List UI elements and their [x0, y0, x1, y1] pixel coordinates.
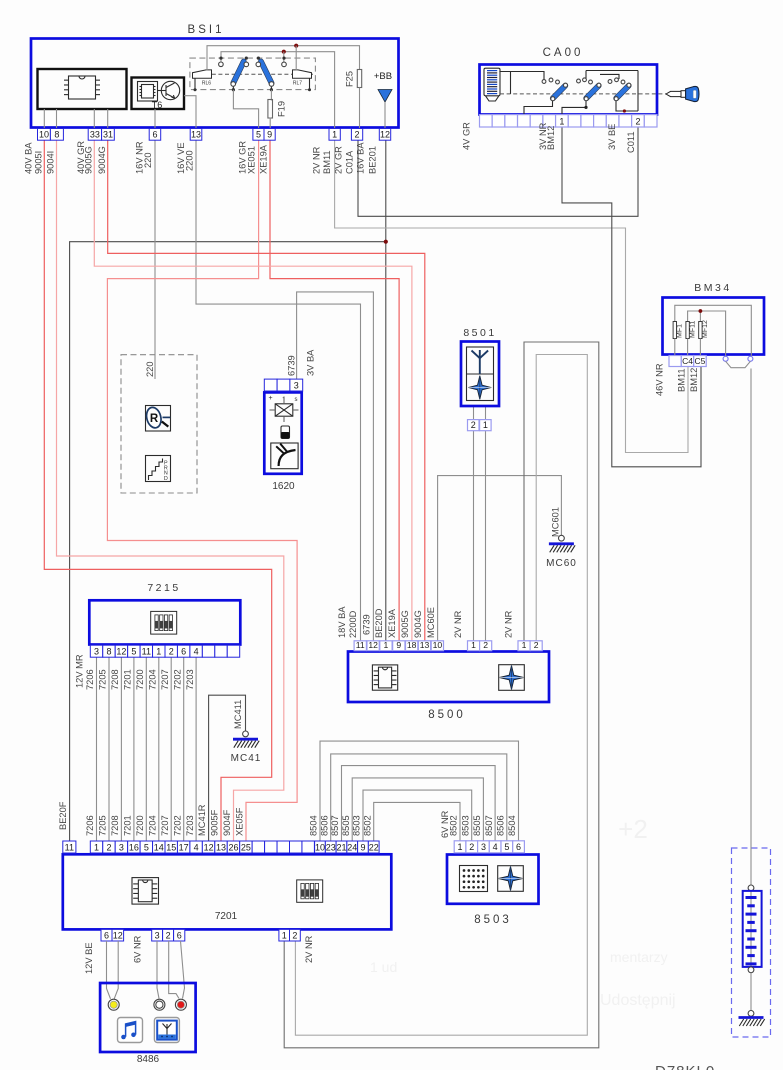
svg-text:BM11: BM11	[677, 368, 687, 392]
svg-text:F25: F25	[345, 71, 355, 87]
svg-text:3V BE: 3V BE	[607, 124, 617, 150]
stub wires IC box to pins 10 8 33 31	[43, 109, 45, 129]
svg-text:7203: 7203	[185, 815, 195, 836]
svg-text:4: 4	[194, 842, 199, 852]
CA00 ignition switch box	[480, 65, 658, 115]
svg-text:8506: 8506	[496, 815, 506, 836]
wire 9005G: BSI1 pin 33 to 8500 pin 18	[94, 140, 412, 641]
ground MC41	[243, 731, 249, 737]
svg-text:Udostępnij: Udostępnij	[600, 992, 676, 1009]
8486 head unit box	[100, 983, 196, 1052]
wire BE20F branch: horizontal to left then down to 7201 pin 11	[70, 242, 386, 841]
CA00 switch bar 1	[542, 80, 546, 84]
T6 transistor symbol	[161, 81, 179, 99]
svg-text:XE05F: XE05F	[235, 807, 245, 836]
svg-text:6: 6	[181, 647, 186, 657]
svg-text:7200: 7200	[135, 815, 145, 836]
svg-text:1620: 1620	[272, 481, 295, 492]
svg-text:5: 5	[144, 842, 149, 852]
8503 keypad symbol	[460, 866, 488, 892]
CA00 pin row	[480, 115, 493, 127]
7201 top pin row	[63, 841, 76, 853]
svg-text:+: +	[268, 395, 272, 402]
svg-text:BM34: BM34	[694, 282, 731, 294]
7201 bottom pins 6 12	[101, 929, 112, 941]
BM34 fuse box	[663, 298, 765, 355]
svg-text:9: 9	[360, 842, 365, 852]
BM34 internal rails	[675, 305, 752, 356]
wire 2V NR loop B: 8500 pin2(grp3) to 7201 bottom pin 2	[295, 355, 587, 1036]
svg-text:2V NR: 2V NR	[304, 935, 314, 963]
wire 8501 pin 1 to 8500 2V NR pin 2	[485, 431, 487, 641]
svg-text:2: 2	[169, 647, 174, 657]
svg-text:MC41R: MC41R	[197, 804, 207, 836]
svg-text:8502: 8502	[449, 815, 459, 836]
svg-text:mentarzy: mentarzy	[610, 949, 668, 965]
CA00 switch bar 2	[577, 79, 581, 83]
svg-text:220: 220	[143, 152, 153, 168]
antenna terminal bottom	[748, 967, 754, 973]
T6 driver box	[132, 78, 185, 110]
svg-text:7201: 7201	[123, 815, 133, 836]
BM34 connector empty cell	[669, 356, 681, 367]
svg-text:8500: 8500	[428, 709, 466, 721]
CA00 mechanical dashed line	[500, 93, 666, 95]
8486 red terminal	[175, 999, 186, 1010]
fuse MF11	[686, 322, 689, 339]
svg-text:23: 23	[326, 842, 336, 852]
7215 keypad box	[89, 600, 240, 644]
svg-text:MC411: MC411	[233, 700, 243, 729]
BSI1 pin 5	[253, 129, 264, 141]
8486 white terminal	[154, 999, 165, 1010]
CA00 internal wires	[499, 72, 544, 80]
svg-text:BSI1: BSI1	[188, 24, 225, 36]
svg-text:21: 21	[336, 842, 346, 852]
IC chip symbol U-BSI	[69, 76, 96, 99]
svg-text:MC41: MC41	[231, 753, 262, 764]
svg-text:C01A: C01A	[345, 150, 355, 174]
BSI1 pin 13	[190, 129, 202, 141]
svg-text:9005I: 9005I	[34, 151, 44, 174]
svg-text:12V BE: 12V BE	[84, 942, 94, 974]
8500 star symbol	[499, 665, 525, 691]
svg-text:R: R	[150, 413, 159, 425]
svg-text:3: 3	[155, 930, 160, 940]
switch 2 contacts and lever	[257, 57, 260, 60]
wire 2V NR loop A: 8500 pin1(grp3) to 7201 bottom pin 1	[284, 342, 599, 1048]
svg-text:2V NR: 2V NR	[453, 610, 463, 638]
svg-text:9004I: 9004I	[46, 151, 56, 174]
svg-text:9005G: 9005G	[400, 610, 410, 638]
1620 microphone-arm symbol	[271, 443, 298, 469]
svg-text:+2: +2	[618, 814, 648, 844]
dashed option box with radio and gear symbols	[121, 355, 197, 493]
svg-text:12: 12	[368, 640, 378, 650]
8500 pin row group1	[354, 641, 366, 651]
8501 inner cells	[467, 347, 494, 401]
antenna terminal top	[748, 885, 754, 891]
svg-text:2: 2	[471, 420, 476, 430]
svg-text:2V GR: 2V GR	[334, 146, 344, 174]
svg-text:2: 2	[534, 640, 539, 650]
svg-text:10: 10	[433, 640, 443, 650]
svg-text:9005F: 9005F	[210, 809, 220, 836]
svg-text:9004G: 9004G	[97, 146, 107, 174]
svg-text:12V MR: 12V MR	[75, 654, 85, 688]
svg-text:2: 2	[355, 130, 360, 140]
svg-text:40V BA: 40V BA	[24, 142, 34, 174]
svg-text:5: 5	[504, 842, 509, 852]
svg-text:1: 1	[458, 842, 463, 852]
svg-text:1: 1	[332, 130, 337, 140]
1620 pin 3	[290, 379, 303, 391]
svg-text:MC60E: MC60E	[426, 607, 436, 638]
rear window antenna dashed box	[732, 848, 771, 1037]
7215 dip symbol	[151, 611, 177, 634]
svg-text:6V NR: 6V NR	[133, 935, 143, 963]
svg-text:2: 2	[483, 640, 488, 650]
svg-text:7206: 7206	[85, 815, 95, 836]
svg-text:MC601: MC601	[551, 507, 561, 537]
svg-text:1: 1	[522, 640, 527, 650]
svg-text:9004G: 9004G	[413, 610, 423, 638]
svg-text:BM11: BM11	[322, 150, 332, 174]
7201 dip symbol	[297, 880, 323, 902]
svg-text:3: 3	[481, 842, 486, 852]
fuse F19	[270, 90, 272, 101]
svg-text:7207: 7207	[160, 669, 170, 690]
svg-text:RL6: RL6	[202, 81, 211, 87]
mechanical link dashed line	[192, 73, 313, 75]
svg-text:13: 13	[191, 130, 201, 140]
svg-text:XE051: XE051	[247, 146, 257, 174]
wire BE201 from BSI1 pin 12 down to 8500 pin 1 (BE20D)	[385, 140, 387, 641]
8501 star symbol	[468, 376, 491, 400]
junction rail1 to RL7	[294, 44, 298, 48]
svg-text:C5: C5	[695, 356, 706, 366]
8486 yellow terminal	[108, 999, 119, 1010]
wire XE051/XE05F: BSI1 pin 5 to 7201 pin 25	[107, 140, 297, 841]
svg-text:5: 5	[131, 647, 136, 657]
BSI1 pin 8	[50, 129, 63, 141]
svg-text:2: 2	[166, 930, 171, 940]
svg-text:13: 13	[216, 842, 226, 852]
svg-text:8504: 8504	[507, 815, 517, 836]
svg-text:2V NR: 2V NR	[504, 610, 514, 638]
svg-text:16: 16	[129, 842, 139, 852]
svg-text:10: 10	[39, 130, 49, 140]
fuse tails to connector	[674, 339, 676, 356]
svg-text:5: 5	[256, 130, 261, 140]
svg-text:2: 2	[292, 930, 297, 940]
svg-text:9005G: 9005G	[84, 146, 94, 174]
svg-text:D: D	[164, 476, 168, 482]
svg-text:XE19A: XE19A	[387, 608, 397, 638]
1620 pin cells	[264, 379, 277, 391]
svg-text:9004F: 9004F	[222, 809, 232, 836]
svg-text:13: 13	[420, 640, 430, 650]
BSI1 pin 1	[329, 129, 340, 141]
fuse MF1	[673, 322, 676, 339]
svg-text:7207: 7207	[160, 815, 170, 836]
svg-text:8506: 8506	[319, 815, 329, 836]
wire 2200: BSI1 pin 13 to 8500 pin 11	[196, 140, 361, 641]
svg-text:8507: 8507	[330, 815, 340, 836]
T6 chip square	[138, 82, 158, 102]
svg-text:4V GR: 4V GR	[462, 122, 472, 150]
wire switch1 to pin 5	[233, 90, 258, 129]
svg-text:4: 4	[194, 647, 199, 657]
svg-text:2200D: 2200D	[348, 610, 358, 638]
svg-text:7203: 7203	[185, 669, 195, 690]
svg-text:6: 6	[152, 130, 157, 140]
antenna element	[750, 891, 752, 967]
8500 control unit box	[348, 652, 549, 703]
relay coil RL6	[193, 70, 212, 78]
junction BM34	[699, 309, 703, 313]
svg-text:6: 6	[516, 842, 521, 852]
svg-text:31: 31	[103, 130, 113, 140]
svg-text:6: 6	[104, 930, 109, 940]
svg-text:2: 2	[106, 842, 111, 852]
svg-text:7200: 7200	[135, 669, 145, 690]
junction BE20 node	[384, 240, 388, 244]
wire 220: BSI1 pin 6 down into dashed box	[154, 140, 156, 379]
svg-text:BM12: BM12	[689, 368, 699, 392]
svg-text:8505: 8505	[472, 815, 482, 836]
BSI1 pin 31	[102, 129, 115, 141]
svg-text:1: 1	[156, 647, 161, 657]
svg-text:8501: 8501	[463, 327, 496, 339]
svg-text:RL7: RL7	[293, 81, 302, 87]
svg-text:11: 11	[142, 647, 151, 657]
svg-text:17: 17	[179, 842, 189, 852]
svg-text:6: 6	[177, 930, 182, 940]
BSI1 pin 9	[264, 129, 275, 141]
svg-text:3: 3	[119, 842, 124, 852]
wire MC41R: 7201 pin 12 to ground MC41	[209, 695, 246, 841]
wires 7201 to 8486 terminals	[107, 941, 111, 999]
ground of antenna	[739, 1016, 764, 1019]
wire BM11: BSI1 pin 1 to BM34 C4	[335, 140, 688, 452]
antenna ground terminal	[748, 1011, 754, 1017]
rail 2 inside BSI1	[221, 52, 335, 129]
8501 pin 2	[468, 420, 480, 431]
wire C01A: BSI1 pin 2 to CA00 pin 2	[358, 127, 638, 216]
svg-text:7205: 7205	[98, 669, 108, 690]
8501 antenna amplifier box	[461, 342, 499, 407]
wire 6739: 1620 pin 3 to 8500 pin 12	[297, 292, 374, 641]
svg-text:14: 14	[154, 842, 164, 852]
svg-text:MF12: MF12	[702, 320, 709, 338]
wires 7206-7203: 7215 pins to 7201 pins	[96, 657, 98, 841]
8486 music note icon	[118, 1018, 143, 1043]
8500 IC symbol	[372, 665, 397, 690]
wire MC60E: 8500 pin 10 to ground MC60	[438, 476, 562, 641]
svg-text:1: 1	[282, 930, 287, 940]
svg-text:7204: 7204	[148, 815, 158, 836]
svg-text:12: 12	[113, 930, 123, 940]
8501 pin 1	[480, 420, 492, 431]
junction rail2 to switch2 contact	[282, 50, 286, 54]
svg-text:CA00: CA00	[543, 47, 584, 59]
svg-text:18V BA: 18V BA	[337, 606, 347, 638]
CA00 transponder coil	[484, 68, 500, 96]
wire BM12: CA00 pin 1 to BM34 C5	[562, 127, 701, 467]
8503 keypad unit box	[447, 855, 539, 904]
svg-text:7206: 7206	[85, 669, 95, 690]
svg-text:7202: 7202	[172, 815, 182, 836]
BM34 connector C4	[681, 356, 693, 367]
7201 radio unit box	[63, 854, 392, 929]
relay block dashed box	[190, 58, 316, 90]
stub T6 to pin 6	[154, 109, 156, 129]
svg-text:8507: 8507	[484, 815, 494, 836]
svg-text:2: 2	[469, 842, 474, 852]
wire 9004I/9004F: BSI1 pin 8 to 7201 pin 26	[57, 140, 284, 841]
8501 antenna symbol	[472, 350, 489, 374]
8486 display icon	[154, 1018, 179, 1043]
BSI1 pin 10	[38, 129, 51, 141]
svg-text:16V BA: 16V BA	[356, 142, 366, 174]
wire T6 output to pin 13	[184, 96, 196, 129]
svg-text:12: 12	[204, 842, 214, 852]
ground MC60	[559, 535, 565, 541]
svg-text:C4: C4	[682, 356, 693, 366]
svg-text:12: 12	[380, 130, 390, 140]
svg-text:3: 3	[94, 647, 99, 657]
svg-text:8503: 8503	[474, 914, 512, 926]
svg-text:10: 10	[315, 842, 325, 852]
svg-text:F19: F19	[277, 101, 287, 117]
7201 bottom pins 3 2 6	[152, 929, 163, 941]
wire 9005I/9005F: BSI1 pin 10 to 7201 pin 13	[44, 140, 271, 841]
svg-text:7208: 7208	[110, 669, 120, 690]
BSI1 pin 2	[351, 129, 362, 141]
svg-text:1: 1	[483, 420, 488, 430]
svg-text:MC60: MC60	[546, 558, 577, 569]
8503 star symbol	[498, 866, 524, 892]
svg-text:1: 1	[384, 640, 389, 650]
svg-text:8486: 8486	[137, 1054, 160, 1065]
svg-text:220: 220	[145, 361, 155, 377]
8500 pin row group3	[518, 641, 530, 651]
svg-text:11: 11	[65, 842, 74, 852]
svg-text:8504: 8504	[309, 815, 319, 836]
8503 pin row	[454, 841, 466, 853]
relay coil RL7	[293, 70, 312, 78]
svg-text:9: 9	[267, 130, 272, 140]
svg-text:6739: 6739	[287, 355, 297, 376]
wire stubs 8501 box to pins	[473, 406, 475, 420]
svg-text:MF1: MF1	[677, 324, 684, 338]
svg-text:3V BA: 3V BA	[306, 349, 316, 376]
1620 component box	[264, 392, 301, 473]
svg-text:2V NR: 2V NR	[312, 146, 322, 174]
BSI1 pin 12	[379, 129, 390, 141]
svg-text:s: s	[295, 397, 298, 403]
BM34 connector C5	[694, 356, 707, 367]
svg-text:8505: 8505	[341, 815, 351, 836]
svg-text:3: 3	[294, 380, 299, 390]
svg-text:25: 25	[241, 842, 251, 852]
switch 1 contacts and lever	[219, 57, 222, 60]
svg-text:11: 11	[356, 640, 365, 650]
svg-text:XE19A: XE19A	[259, 144, 269, 174]
svg-text:1 ud: 1 ud	[370, 959, 397, 975]
svg-text:BE201: BE201	[368, 146, 378, 174]
1620 crossed-box symbol	[275, 404, 293, 416]
wire 46V NR: BM34 strap down to antenna element	[750, 369, 752, 886]
svg-text:12: 12	[116, 647, 126, 657]
svg-text:+BB: +BB	[374, 71, 392, 82]
radio R symbol	[146, 406, 171, 432]
svg-text:8503: 8503	[460, 815, 470, 836]
svg-text:BM12: BM12	[546, 126, 556, 150]
svg-text:BE20D: BE20D	[374, 608, 384, 638]
BSI1 control unit box	[31, 39, 399, 128]
fuse F25	[357, 70, 361, 88]
wire 8501 pin 2 to 8500 2V NR pin 1	[473, 431, 475, 641]
svg-text:33: 33	[90, 130, 100, 140]
svg-text:1: 1	[94, 842, 99, 852]
CA00 switch bar 3	[608, 80, 612, 84]
7215 pin row	[90, 645, 102, 657]
svg-text:7205: 7205	[98, 815, 108, 836]
svg-text:9: 9	[396, 640, 401, 650]
svg-text:7208: 7208	[110, 815, 120, 836]
svg-text:24: 24	[347, 842, 357, 852]
svg-text:7202: 7202	[172, 669, 182, 690]
svg-text:18: 18	[407, 640, 417, 650]
BSI1 pin 6	[149, 129, 161, 141]
svg-text:46V NR: 46V NR	[655, 363, 665, 396]
8500 pin row group2	[468, 641, 480, 651]
gear selector stairs symbol	[146, 456, 171, 482]
svg-text:6739: 6739	[362, 614, 372, 635]
svg-text:8502: 8502	[362, 815, 372, 836]
7201 bottom pins 1 2	[279, 929, 290, 941]
svg-text:7201: 7201	[215, 911, 238, 922]
svg-text:MF11: MF11	[689, 321, 696, 338]
svg-text:8503: 8503	[352, 815, 362, 836]
7201 IC symbol	[132, 878, 159, 905]
BM34 terminal circles and strap	[723, 356, 728, 361]
svg-text:22: 22	[369, 842, 379, 852]
svg-text:2200: 2200	[185, 150, 195, 171]
wire 9004G: BSI1 pin 31 to 8500 pin 13	[108, 140, 425, 641]
svg-text:26: 26	[228, 842, 238, 852]
svg-text:2: 2	[635, 116, 640, 126]
svg-text:BE20F: BE20F	[58, 801, 68, 830]
antenna ground wire	[750, 973, 752, 1011]
svg-text:8: 8	[106, 647, 111, 657]
svg-text:4: 4	[493, 842, 498, 852]
svg-text:8: 8	[54, 130, 59, 140]
rail 1 inside BSI1	[207, 46, 360, 71]
svg-text:1: 1	[559, 116, 564, 126]
fuse MF12	[699, 322, 702, 339]
BSI1 internal IC module box	[38, 69, 127, 109]
svg-text:C011: C011	[626, 131, 636, 153]
BSI1 pin 33	[88, 129, 101, 141]
ignition key symbol	[666, 91, 681, 96]
wires 8504/8506/8507/8505/8503/8502 loops 7201 to 8503	[320, 741, 519, 841]
svg-text:1: 1	[471, 640, 476, 650]
wire XE19A: BSI1 pin 9 to 8500 pin 9	[270, 140, 399, 641]
1620 battery icon	[281, 426, 290, 439]
